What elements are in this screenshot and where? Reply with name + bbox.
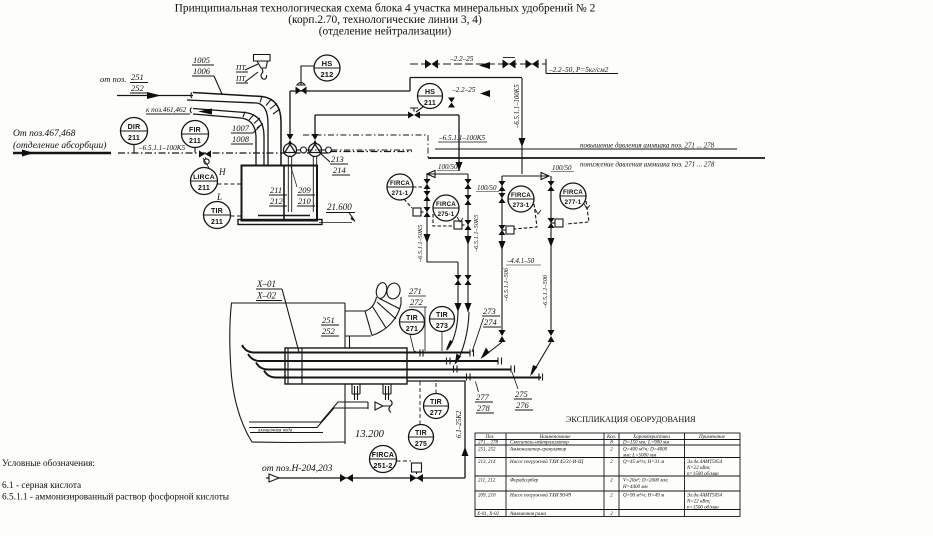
svg-text:211: 211: [128, 135, 140, 142]
svg-text:ПТ: ПТ: [235, 63, 246, 72]
svg-text:FIRCA: FIRCA: [390, 180, 410, 187]
svg-text:Аммонизатор-гранулятор: Аммонизатор-гранулятор: [509, 448, 567, 453]
svg-text:HS: HS: [322, 59, 333, 68]
svg-text:Примечание: Примечание: [698, 435, 726, 440]
svg-text:HS: HS: [425, 89, 435, 96]
svg-text:Н: Н: [218, 167, 226, 177]
svg-text:аммиачная вода: аммиачная вода: [258, 429, 293, 434]
svg-text:FIRCA: FIRCA: [563, 189, 583, 196]
svg-text:Поз.: Поз.: [484, 435, 494, 440]
svg-text:1008: 1008: [232, 134, 250, 144]
svg-text:LIRCA: LIRCA: [193, 174, 215, 181]
svg-text:209: 209: [298, 185, 312, 195]
svg-text:278: 278: [477, 403, 491, 413]
svg-text:Q=90 м³/ч; Н=49 м: Q=90 м³/ч; Н=49 м: [623, 493, 665, 499]
svg-text:275: 275: [515, 389, 528, 399]
svg-text:От поз.467,468: От поз.467,468: [13, 129, 76, 139]
svg-text:понижение давления аммиака поз: понижение давления аммиака поз. 271 ... …: [580, 161, 715, 169]
svg-text:252: 252: [131, 83, 145, 93]
svg-text:211: 211: [424, 100, 436, 107]
svg-text:1005: 1005: [193, 55, 210, 65]
svg-text:FIRCA: FIRCA: [511, 192, 531, 199]
svg-text:–6.5.1.1–100К5: –6.5.1.1–100К5: [138, 144, 186, 152]
svg-text:к поз.461,462: к поз.461,462: [146, 106, 187, 114]
svg-text:212: 212: [320, 70, 333, 79]
svg-text:D=150 мм; L=900 мм: D=150 мм; L=900 мм: [622, 441, 670, 446]
svg-text:2: 2: [610, 460, 613, 465]
svg-text:TIR: TIR: [430, 399, 442, 406]
svg-text:271-1: 271-1: [392, 190, 409, 197]
svg-text:213, 214: 213, 214: [478, 460, 496, 465]
svg-text:Наименование: Наименование: [539, 435, 572, 440]
svg-text:277-1: 277-1: [565, 199, 582, 206]
svg-text:–2.2–25: –2.2–25: [451, 86, 476, 94]
svg-text:TIR: TIR: [415, 430, 427, 437]
svg-text:–6.5.1.1–50б: –6.5.1.1–50б: [542, 274, 549, 309]
svg-text:Насос погружной ТХИ 90/49: Насос погружной ТХИ 90/49: [509, 493, 572, 499]
svg-text:2: 2: [610, 479, 613, 484]
svg-text:мм; L=5000 мм: мм; L=5000 мм: [622, 454, 657, 459]
svg-text:2: 2: [610, 448, 613, 453]
svg-text:Принципиальная технологическая: Принципиальная технологическая схема бло…: [175, 3, 596, 15]
svg-text:N=22 кВт;: N=22 кВт;: [686, 466, 711, 471]
svg-text:Q=45 м³/ч; Н=31 м: Q=45 м³/ч; Н=31 м: [623, 459, 665, 465]
svg-text:от поз.: от поз.: [100, 74, 126, 84]
svg-text:271: 271: [406, 326, 418, 333]
svg-text:273-1: 273-1: [513, 202, 530, 209]
svg-text:–6.5.1.1–50К5: –6.5.1.1–50К5: [417, 225, 424, 263]
svg-text:100/50: 100/50: [552, 164, 572, 172]
svg-text:TIR: TIR: [211, 208, 223, 215]
svg-text:Кол.: Кол.: [606, 435, 616, 440]
svg-text:–4.4.1–50: –4.4.1–50: [506, 258, 535, 265]
svg-text:211: 211: [198, 185, 210, 192]
svg-text:Насос погружной ТХИ 45/31-И-Щ: Насос погружной ТХИ 45/31-И-Щ: [509, 459, 584, 465]
svg-text:251, 252: 251, 252: [478, 448, 496, 453]
svg-text:DIR: DIR: [128, 124, 141, 131]
svg-text:ЭКСПЛИКАЦИЯ ОБОРУДОВАНИЯ: ЭКСПЛИКАЦИЯ ОБОРУДОВАНИЯ: [566, 415, 696, 424]
svg-text:2: 2: [610, 494, 613, 499]
svg-text:повышение давления аммиака поз: повышение давления аммиака поз. 271 ... …: [580, 142, 715, 150]
svg-text:214: 214: [333, 165, 347, 175]
svg-text:N=22 кВт;: N=22 кВт;: [686, 499, 711, 504]
svg-text:TIR: TIR: [406, 315, 418, 322]
svg-text:271... 278: 271... 278: [478, 441, 499, 446]
svg-text:1007: 1007: [232, 123, 250, 133]
svg-text:–6.5.1.1–100К5: –6.5.1.1–100К5: [514, 84, 521, 129]
svg-text:ПТ: ПТ: [235, 74, 246, 83]
svg-text:–2.2–50, Р=5кг/см2: –2.2–50, Р=5кг/см2: [548, 66, 609, 74]
svg-text:213: 213: [331, 154, 344, 164]
svg-text:FIRCA: FIRCA: [372, 452, 394, 459]
svg-text:L: L: [216, 192, 222, 202]
svg-text:Форабсорбер: Форабсорбер: [510, 479, 539, 484]
svg-text:251-2: 251-2: [374, 463, 393, 470]
svg-text:Условные обозначения:: Условные обозначения:: [2, 458, 95, 469]
svg-text:(корп.2.70, технологические ли: (корп.2.70, технологические линии 3, 4): [288, 14, 482, 26]
svg-text:–6.5.1.1–50б: –6.5.1.1–50б: [503, 267, 510, 302]
svg-text:Х–02: Х–02: [256, 291, 276, 301]
svg-text:6.5.1.1 - аммонизированный рас: 6.5.1.1 - аммонизированный раствор фосфо…: [2, 492, 230, 503]
svg-text:Х–01: Х–01: [256, 279, 276, 289]
svg-text:6.1 - серная кислота: 6.1 - серная кислота: [2, 481, 81, 491]
svg-text:Смеситель-нейтрализатор: Смеситель-нейтрализатор: [510, 440, 569, 446]
svg-text:211: 211: [211, 219, 223, 226]
svg-text:Q=400 м³/ч; D=4000: Q=400 м³/ч; D=4000: [623, 447, 668, 453]
svg-text:FIRCA: FIRCA: [436, 201, 456, 208]
svg-text:275: 275: [415, 441, 427, 448]
svg-text:13.200: 13.200: [355, 429, 385, 440]
svg-text:274: 274: [484, 317, 498, 327]
svg-text:21.600: 21.600: [327, 202, 352, 212]
svg-text:–6.5.1.1–50К5: –6.5.1.1–50К5: [473, 215, 480, 253]
svg-text:Аммиачная рама: Аммиачная рама: [509, 512, 547, 517]
svg-text:271: 271: [409, 286, 422, 296]
svg-text:Х-01, Х-02: Х-01, Х-02: [476, 512, 499, 517]
svg-text:100/50: 100/50: [438, 163, 458, 171]
svg-text:277: 277: [430, 410, 442, 417]
svg-text:251: 251: [322, 315, 335, 325]
svg-text:6.1–25К2: 6.1–25К2: [455, 410, 463, 438]
svg-text:276: 276: [516, 400, 530, 410]
svg-text:TIR: TIR: [436, 312, 448, 319]
svg-text:Эл.дв.4АМТ5054: Эл.дв.4АМТ5054: [687, 494, 723, 499]
svg-text:100/50: 100/50: [477, 184, 497, 192]
svg-text:210: 210: [298, 196, 312, 206]
svg-text:от поз.Н-204,203: от поз.Н-204,203: [262, 464, 333, 474]
svg-text:(отделение нейтрализации): (отделение нейтрализации): [319, 26, 452, 38]
svg-text:273: 273: [483, 306, 496, 316]
svg-text:FIR: FIR: [189, 127, 201, 134]
svg-text:Н=4400 мм: Н=4400 мм: [622, 485, 648, 490]
svg-text:272: 272: [410, 297, 424, 307]
svg-text:n=1500 об/мин: n=1500 об/мин: [687, 505, 719, 510]
svg-text:212: 212: [270, 196, 284, 206]
svg-text:211: 211: [270, 185, 282, 195]
svg-text:–6.5.1.1–100К5: –6.5.1.1–100К5: [438, 134, 486, 142]
svg-text:252: 252: [322, 326, 336, 336]
svg-text:251: 251: [131, 72, 144, 82]
svg-text:(отделение абсорбции): (отделение абсорбции): [13, 140, 106, 151]
svg-text:Эл.дв.4АМТ5054: Эл.дв.4АМТ5054: [687, 460, 723, 465]
svg-text:273: 273: [436, 323, 448, 330]
svg-text:Характеристика: Характеристика: [632, 435, 670, 440]
svg-text:277: 277: [476, 392, 490, 402]
svg-text:211, 212: 211, 212: [478, 479, 496, 484]
svg-text:211: 211: [189, 138, 201, 145]
svg-text:209, 210: 209, 210: [478, 494, 496, 499]
svg-text:1006: 1006: [193, 66, 211, 76]
svg-text:n=1500 об/мин: n=1500 об/мин: [687, 472, 719, 477]
svg-text:275-1: 275-1: [438, 211, 455, 218]
svg-text:–2.2–25: –2.2–25: [449, 55, 474, 63]
svg-text:V=20м³; D=2600 мм;: V=20м³; D=2600 мм;: [623, 478, 669, 484]
